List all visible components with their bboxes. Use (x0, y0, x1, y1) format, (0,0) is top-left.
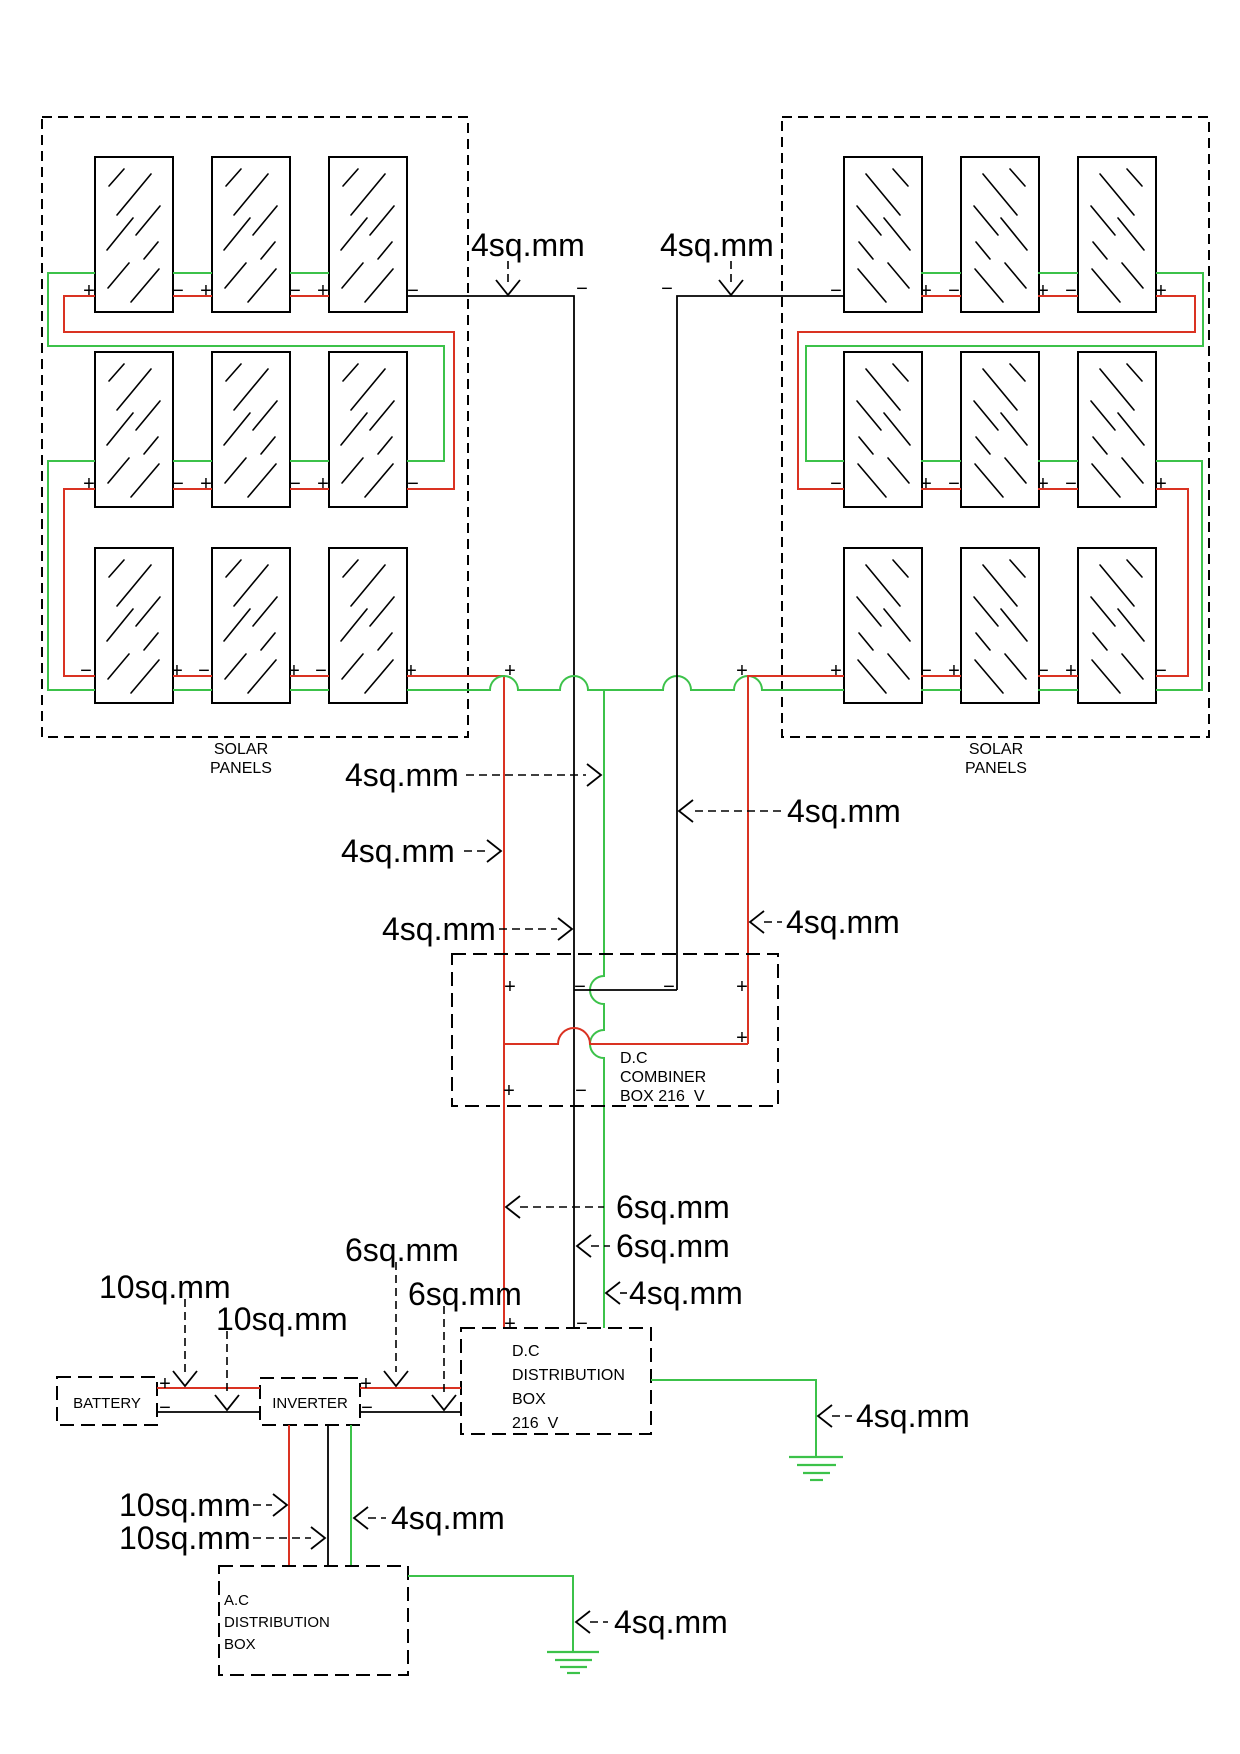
label SOLAR PANELS right (965, 741, 1027, 777)
value label 10sq.mm battery negative (215, 1301, 348, 1410)
wire red row2 link right b (1038, 488, 1078, 490)
terminal label negative feeder left (576, 278, 588, 300)
svg-text:4sq.mm: 4sq.mm (345, 757, 459, 793)
svg-text:10sq.mm: 10sq.mm (99, 1269, 231, 1305)
svg-text:+: + (405, 660, 417, 682)
svg-text:−: − (663, 976, 675, 998)
wire green earth from dc box (651, 1380, 816, 1457)
svg-text:−: − (407, 280, 419, 302)
svg-text:A.C: A.C (224, 1592, 249, 1609)
svg-text:−: − (407, 473, 419, 495)
terminal labels row1 left array (83, 280, 419, 302)
wire green inverter to ac box (350, 1425, 352, 1566)
svg-text:4sq.mm: 4sq.mm (382, 911, 496, 947)
wire red row3 link right b (1038, 675, 1078, 677)
value label 4sq.mm negative feeder left (471, 227, 585, 295)
wire red row2 link right a (921, 488, 961, 490)
solar panel PV10 (844, 157, 922, 312)
svg-text:+: + (948, 660, 960, 682)
svg-text:216 V: 216 V (512, 1415, 559, 1432)
svg-text:+: + (200, 280, 212, 302)
svg-text:6sq.mm: 6sq.mm (616, 1189, 730, 1225)
solar panel PV16 (844, 548, 922, 703)
svg-text:+: + (1037, 473, 1049, 495)
value label 10sq.mm ac live (119, 1487, 287, 1523)
svg-text:BOX: BOX (512, 1391, 546, 1408)
value label 4sq.mm negative feeder right (660, 227, 774, 295)
terminal label positive feeder right (736, 660, 748, 682)
wire red battery to inverter (157, 1387, 260, 1389)
solar panel PV1 (95, 157, 173, 312)
D.C combiner box label (620, 1050, 706, 1105)
wire red row1 link left a (173, 295, 212, 297)
svg-text:−: − (920, 660, 932, 682)
value label 4sq.mm ac earth ground (576, 1604, 728, 1640)
svg-text:+: + (1037, 280, 1049, 302)
terminal labels battery negative (159, 1397, 171, 1419)
wire red row1 link right b (1038, 295, 1078, 297)
solar panel PV3 (329, 157, 407, 312)
wire green row1 link left b (290, 272, 329, 274)
svg-text:10sq.mm: 10sq.mm (119, 1487, 251, 1523)
svg-text:BATTERY: BATTERY (73, 1395, 141, 1412)
svg-text:+: + (504, 1313, 516, 1335)
wire black inverter to dc box (360, 1411, 461, 1413)
value label 6sq.mm negative output (577, 1228, 730, 1264)
svg-text:10sq.mm: 10sq.mm (119, 1520, 251, 1556)
svg-text:−: − (576, 278, 588, 300)
terminal labels battery output (159, 1373, 171, 1395)
terminal labels row3 right array (830, 660, 1167, 682)
A.C distribution box label (224, 1592, 330, 1653)
svg-text:−: − (1155, 660, 1167, 682)
inverter U1 (260, 1378, 360, 1425)
terminal label negative feeder right (661, 278, 673, 300)
wire black inverter to ac box (327, 1425, 329, 1566)
svg-text:−: − (159, 1397, 171, 1419)
solar panel PV11 (961, 157, 1039, 312)
solar panel PV5 (212, 352, 290, 507)
terminal label positive feeder left (504, 660, 516, 682)
wire red series string2 right (1156, 489, 1188, 676)
svg-text:−: − (198, 660, 210, 682)
A.C distribution box enclosure (219, 1566, 408, 1675)
wire green row2 link left a (173, 460, 212, 462)
wire red combiner positive bus (504, 1028, 748, 1044)
value label 4sq.mm positive feeder left (341, 833, 501, 869)
svg-text:+: + (1155, 280, 1167, 302)
solar panel PV12 (1078, 157, 1156, 312)
svg-text:4sq.mm: 4sq.mm (471, 227, 585, 263)
terminal labels inverter output (360, 1373, 372, 1395)
svg-text:+: + (736, 976, 748, 998)
wire black combiner negative link (574, 989, 677, 991)
svg-text:4sq.mm: 4sq.mm (787, 793, 901, 829)
solar panel PV14 (961, 352, 1039, 507)
wire black negative feeder left (407, 296, 574, 1328)
svg-text:+: + (360, 1373, 372, 1395)
terminal labels inverter negative (361, 1397, 373, 1419)
svg-text:INVERTER: INVERTER (272, 1395, 348, 1412)
wire green earth string2 right (1156, 461, 1202, 690)
svg-text:SOLAR: SOLAR (969, 741, 1023, 758)
terminal labels combiner box top (504, 976, 748, 998)
svg-text:D.C: D.C (620, 1050, 648, 1067)
value label 4sq.mm ac earth (354, 1500, 505, 1536)
wire green earth bus (407, 676, 844, 690)
svg-text:+: + (1065, 660, 1077, 682)
value label 4sq.mm dc earth (818, 1398, 970, 1434)
svg-text:+: + (830, 660, 842, 682)
svg-text:COMBINER: COMBINER (620, 1069, 706, 1086)
D.C combiner box enclosure (452, 954, 778, 1106)
wire red positive feeder left (407, 676, 504, 1328)
svg-text:−: − (830, 473, 842, 495)
svg-text:BOX: BOX (224, 1636, 256, 1653)
svg-text:+: + (200, 473, 212, 495)
svg-text:−: − (575, 1080, 587, 1102)
wire green row3 link right b (1038, 689, 1078, 691)
solar array right enclosure (782, 117, 1209, 737)
svg-text:4sq.mm: 4sq.mm (341, 833, 455, 869)
svg-text:+: + (317, 473, 329, 495)
svg-text:−: − (1037, 660, 1049, 682)
svg-text:+: + (317, 280, 329, 302)
wire green earth string2 left (48, 461, 95, 690)
svg-text:+: + (83, 473, 95, 495)
solar array left enclosure (42, 117, 468, 737)
svg-text:−: − (172, 280, 184, 302)
solar panel PV4 (95, 352, 173, 507)
svg-text:−: − (574, 976, 586, 998)
svg-text:+: + (1155, 473, 1167, 495)
battery B1 (57, 1377, 157, 1425)
svg-text:+: + (171, 660, 183, 682)
svg-text:−: − (361, 1397, 373, 1419)
D.C distribution box label (512, 1343, 625, 1432)
wire red row1 link left b (290, 295, 329, 297)
svg-text:−: − (948, 280, 960, 302)
value label 10sq.mm battery positive (99, 1269, 231, 1386)
value label 6sq.mm inverter positive (345, 1232, 459, 1386)
svg-text:4sq.mm: 4sq.mm (856, 1398, 970, 1434)
svg-text:4sq.mm: 4sq.mm (614, 1604, 728, 1640)
svg-text:+: + (288, 660, 300, 682)
solar panel PV2 (212, 157, 290, 312)
svg-text:−: − (315, 660, 327, 682)
wire green earth string1 left (48, 273, 444, 461)
svg-text:+: + (504, 660, 516, 682)
wire black battery to inverter (157, 1411, 260, 1413)
wire red row2 link left a (173, 488, 212, 490)
wire red inverter to ac box (288, 1425, 290, 1566)
svg-text:−: − (289, 473, 301, 495)
svg-text:6sq.mm: 6sq.mm (408, 1276, 522, 1312)
svg-text:+: + (736, 1027, 748, 1049)
svg-text:−: − (289, 280, 301, 302)
svg-text:+: + (920, 473, 932, 495)
wire green row1 link left a (173, 272, 212, 274)
value label 4sq.mm earth output (606, 1275, 743, 1311)
solar panel PV6 (329, 352, 407, 507)
svg-text:−: − (948, 473, 960, 495)
svg-text:+: + (736, 660, 748, 682)
wire green row3 link left b (290, 689, 329, 691)
value label 4sq.mm negative feeder left mid (382, 911, 572, 947)
wire red series string1 right (798, 296, 1195, 489)
svg-text:+: + (83, 280, 95, 302)
svg-text:PANELS: PANELS (210, 760, 272, 777)
wire red row3 link right a (921, 675, 961, 677)
wire green row2 link left b (290, 460, 329, 462)
D.C distribution box enclosure (461, 1328, 651, 1434)
wire green row3 link right a (921, 689, 961, 691)
wire red row3 link left a (173, 675, 212, 677)
svg-text:−: − (80, 660, 92, 682)
solar panel PV15 (1078, 352, 1156, 507)
wire green earth string1 right (806, 273, 1203, 461)
ground E2 (547, 1652, 599, 1673)
wire black negative feeder right (677, 296, 844, 990)
svg-text:SOLAR: SOLAR (214, 741, 268, 758)
svg-text:−: − (1065, 473, 1077, 495)
svg-text:−: − (576, 1313, 588, 1335)
svg-text:4sq.mm: 4sq.mm (786, 904, 900, 940)
svg-text:−: − (661, 278, 673, 300)
solar panel PV17 (961, 548, 1039, 703)
terminal labels row1 right array (830, 280, 1167, 302)
value label 4sq.mm earth drop (345, 757, 601, 793)
svg-text:10sq.mm: 10sq.mm (216, 1301, 348, 1337)
value label 6sq.mm positive output (506, 1189, 730, 1225)
terminal labels row3 left array (80, 660, 417, 682)
wire red series string1 left (64, 296, 454, 489)
svg-text:−: − (172, 473, 184, 495)
wire green row2 link right b (1038, 460, 1078, 462)
solar panel PV18 (1078, 548, 1156, 703)
svg-text:+: + (920, 280, 932, 302)
svg-text:−: − (1065, 280, 1077, 302)
wire red inverter to dc box (360, 1387, 461, 1389)
svg-text:6sq.mm: 6sq.mm (616, 1228, 730, 1264)
svg-text:4sq.mm: 4sq.mm (660, 227, 774, 263)
ground E1 (789, 1457, 843, 1480)
wire red row2 link left b (290, 488, 329, 490)
wire green earth from ac box (408, 1576, 573, 1652)
terminal labels dc distribution box (504, 1313, 588, 1335)
svg-text:BOX 216 V: BOX 216 V (620, 1088, 705, 1105)
wire green row1 link right b (1038, 272, 1078, 274)
svg-text:4sq.mm: 4sq.mm (391, 1500, 505, 1536)
svg-text:+: + (503, 1080, 515, 1102)
label SOLAR PANELS left (210, 741, 272, 777)
solar panel PV7 (95, 548, 173, 703)
svg-text:4sq.mm: 4sq.mm (629, 1275, 743, 1311)
value label 4sq.mm positive feeder right (750, 904, 900, 940)
svg-text:+: + (159, 1373, 171, 1395)
svg-text:6sq.mm: 6sq.mm (345, 1232, 459, 1268)
wire red row1 link right a (921, 295, 961, 297)
solar panel PV9 (329, 548, 407, 703)
terminal labels combiner box bottom (503, 1080, 587, 1102)
wire green earth drop (590, 690, 604, 1328)
svg-text:D.C: D.C (512, 1343, 540, 1360)
wire green row2 link right a (921, 460, 961, 462)
terminal labels row2 left array (83, 473, 419, 495)
wire red positive feeder right (748, 676, 844, 1044)
svg-text:+: + (504, 976, 516, 998)
value label 6sq.mm inverter negative (408, 1276, 522, 1410)
node green earth tee junction (603, 689, 605, 691)
solar panel PV8 (212, 548, 290, 703)
value label 10sq.mm ac neutral (119, 1520, 325, 1556)
solar panel PV13 (844, 352, 922, 507)
value label 4sq.mm negative feeder right mid (679, 793, 901, 829)
terminal labels row2 right array (830, 473, 1167, 495)
svg-text:−: − (830, 280, 842, 302)
svg-text:PANELS: PANELS (965, 760, 1027, 777)
terminal label combiner box right positive (736, 1027, 748, 1049)
svg-text:DISTRIBUTION: DISTRIBUTION (224, 1614, 330, 1631)
wire red series string2 left (64, 489, 95, 676)
wire green row3 link left a (173, 689, 212, 691)
wire green row1 link right a (921, 272, 961, 274)
wire red row3 link left b (290, 675, 329, 677)
svg-text:DISTRIBUTION: DISTRIBUTION (512, 1367, 625, 1384)
